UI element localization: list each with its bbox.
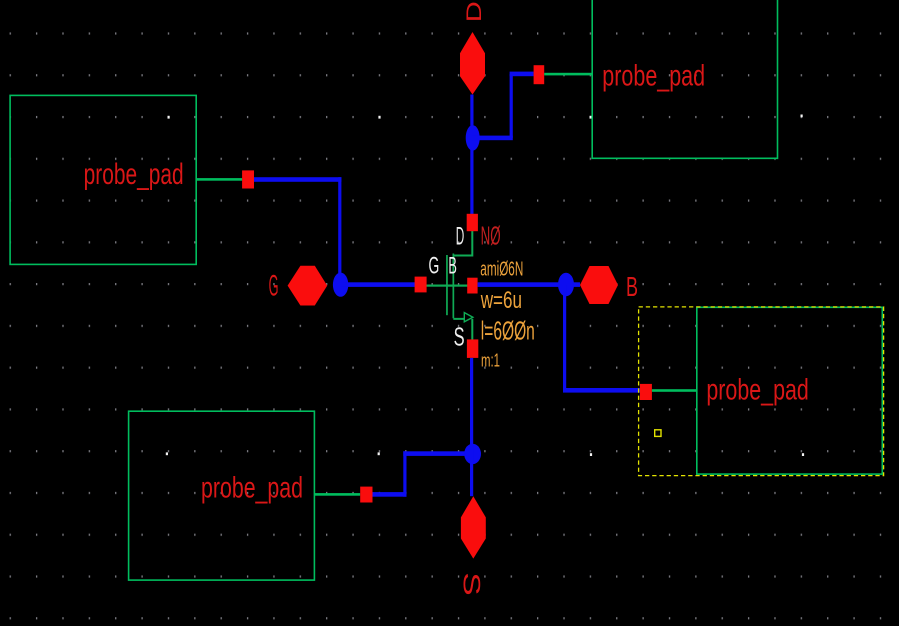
wire: gate net vertical drop: [338, 177, 341, 285]
transistor M0 source arrowhead: [464, 313, 473, 322]
svg-text:S: S: [457, 572, 483, 596]
wire: vertical rise to I2 pin level: [510, 74, 513, 138]
transistor M0 gate/bulk horizontal lead: [427, 285, 468, 287]
selection highlight box (dashed): [639, 307, 884, 476]
probe_pad I3 pin stub: [314, 493, 360, 496]
transistor M0 drain lead: [453, 231, 472, 257]
selection origin marker: [655, 430, 661, 437]
pin D hexagon: [460, 32, 485, 95]
wire: source square down to S hexagon: [470, 358, 473, 496]
transistor M0 channel bar: [453, 254, 455, 319]
probe_pad instance I4 (bottom-right, selected) boundary: [697, 307, 883, 474]
svg-text:w=6u: w=6u: [480, 287, 522, 314]
pin square (wire to I1): [242, 170, 254, 188]
junction node (source net): [464, 444, 481, 464]
wire: horizontal to S junction: [403, 451, 465, 456]
svg-text:probe_pad: probe_pad: [706, 374, 808, 407]
wire: I1 pin to gate net (horizontal): [254, 177, 341, 182]
junction node (gate net): [333, 273, 348, 297]
wire: I3 pin horizontal: [373, 492, 407, 497]
probe_pad I4 pin stub: [652, 389, 697, 392]
wire: vertical rise to source net: [403, 451, 406, 496]
svg-text:G: G: [429, 253, 440, 280]
pin square (wire to I3): [360, 487, 372, 503]
bulk pin square: [467, 278, 477, 294]
wire: bulk net vertical drop: [563, 285, 566, 391]
source pin square: [467, 339, 478, 358]
transistor M0 gate bar: [446, 255, 448, 315]
svg-text:B: B: [626, 271, 638, 302]
wire: bulk square to B junction: [478, 282, 580, 287]
svg-text:D: D: [456, 223, 465, 251]
junction node (drain net): [466, 125, 480, 150]
svg-text:probe_pad: probe_pad: [602, 59, 705, 92]
pin square (wire to I2): [534, 65, 545, 84]
wire: D hexagon down to drain square: [470, 95, 473, 215]
svg-text:m:1: m:1: [481, 350, 500, 370]
wire: horizontal to I4 pin square: [563, 388, 640, 393]
svg-text:probe_pad: probe_pad: [84, 158, 184, 191]
svg-text:B: B: [448, 253, 457, 280]
probe_pad I2 pin stub: [544, 73, 592, 76]
probe_pad instance I2 (top-right) boundary: [592, 0, 777, 158]
svg-text:S: S: [454, 324, 465, 352]
probe_pad instance I3 (bottom-left) boundary: [129, 411, 315, 580]
wire: junction right toward I2: [472, 136, 513, 141]
svg-text:G: G: [269, 270, 279, 303]
transistor M0 source lead: [453, 319, 472, 340]
svg-text:probe_pad: probe_pad: [201, 472, 303, 505]
probe_pad instance I1 (top-left) boundary: [10, 95, 196, 264]
svg-text:D: D: [462, 1, 486, 22]
svg-text:l=6ØØn: l=6ØØn: [481, 315, 535, 345]
pin square (wire to I4): [640, 384, 652, 400]
pin G hexagon: [288, 266, 328, 306]
wire: junction to gate pin square: [341, 282, 415, 287]
major grid dots: [166, 115, 804, 457]
pin S hexagon: [461, 496, 486, 558]
junction node (bulk net): [558, 273, 574, 297]
svg-text:NØ: NØ: [481, 221, 501, 251]
pin B hexagon: [580, 266, 618, 304]
wire: horizontal to I2 pin square: [510, 72, 534, 77]
probe_pad I1 pin stub: [196, 178, 242, 181]
svg-text:amiØ6N: amiØ6N: [480, 259, 523, 281]
drain pin square: [467, 214, 478, 231]
gate pin square: [415, 277, 427, 293]
